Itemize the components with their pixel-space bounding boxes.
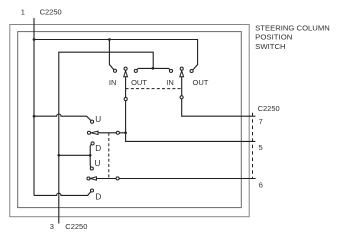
wire rail from pin 1 (left vertical)	[33, 18, 35, 195]
junction dot wireA/switch1 feed	[108, 38, 111, 41]
junction dot link wire/wire B	[152, 67, 155, 70]
svg-text:D: D	[95, 144, 101, 153]
inner box	[18, 32, 242, 208]
wire bracket feed D/U contacts	[59, 144, 92, 167]
wire rail from pin 3 (second left vertical) and wire B to switches junction	[59, 52, 153, 223]
mechanical link dashed between row2 and row5 wipers	[108, 133, 110, 179]
connector label 1 C2250 (top)	[21, 8, 62, 17]
svg-text:IN: IN	[109, 78, 117, 87]
component title STEERING COLUMN POSITION SWITCH	[255, 23, 330, 50]
wire switch 1 feed	[109, 40, 113, 70]
contact circle IN switch 2	[169, 69, 172, 72]
svg-text:SWITCH: SWITCH	[255, 42, 285, 51]
svg-text:U: U	[95, 115, 101, 124]
wire linking switch1 OUT to switch2 IN	[137, 68, 171, 70]
svg-text:IN: IN	[166, 78, 174, 87]
junction dot row2/switch1 shaft	[124, 131, 127, 134]
svg-text:POSITION: POSITION	[255, 33, 292, 42]
contact circle OUT switch 1	[134, 69, 137, 72]
wiper arrow switch 1	[124, 71, 128, 77]
svg-text:OUT: OUT	[131, 78, 147, 87]
contact circle D bracket	[91, 142, 94, 145]
svg-text:5: 5	[259, 143, 263, 152]
wire row 6 to contact D with hop over rail 2	[34, 192, 91, 196]
svg-text:C2250: C2250	[40, 8, 62, 17]
contact circle U row 1	[91, 120, 94, 123]
junction dot rail1/wireA	[33, 38, 36, 41]
contact circle U bracket	[90, 167, 93, 170]
junction circle on row 5 shaft	[116, 177, 119, 180]
svg-text:3: 3	[50, 222, 54, 231]
connector C2250 dashed line (right)	[252, 113, 254, 179]
wire row 2 wiper shaft	[98, 132, 126, 134]
contact circle IN switch 1	[113, 69, 116, 72]
svg-text:C2250: C2250	[65, 222, 87, 231]
svg-text:U: U	[95, 159, 101, 168]
mechanical link dashed between switch poles	[126, 88, 182, 90]
svg-text:6: 6	[259, 181, 263, 190]
wire row 1 to contact U with hop over rail 2	[34, 114, 91, 121]
pole circle switch 1	[124, 67, 127, 70]
wire switch 2 pole shaft down and right to pin 7	[182, 77, 256, 117]
contact circle row 2 wiper	[87, 131, 90, 134]
svg-text:1: 1	[21, 8, 25, 17]
wiper arrow row 5	[90, 177, 96, 180]
wire switch 1 pole shaft down and right to pin 5	[126, 77, 256, 142]
junction dot bracket feed/bracket	[89, 154, 92, 157]
wiper arrow switch 2	[180, 71, 184, 77]
pole circle switch 2	[180, 67, 183, 70]
junction circle on switch 1 shaft	[124, 98, 127, 101]
contact circle row 5 wiper	[87, 177, 90, 180]
outer box	[10, 25, 249, 217]
svg-text:7: 7	[259, 117, 263, 126]
svg-text:STEERING COLUMN: STEERING COLUMN	[255, 23, 330, 32]
wiper arrow row 2	[91, 131, 98, 134]
contact circle D row 6	[90, 189, 93, 192]
contact circle OUT switch 2	[190, 69, 193, 72]
junction dot rail1/row1	[33, 115, 36, 118]
wire A from rail 1 to switch 2 feed	[34, 40, 198, 70]
svg-text:C2250: C2250	[258, 104, 280, 113]
junction circle on switch 2 shaft	[180, 96, 183, 99]
svg-text:OUT: OUT	[193, 78, 209, 87]
junction circle on row 2 shaft	[116, 131, 119, 134]
connector label 3 C2250 (bottom)	[50, 222, 88, 231]
junction dot rail2/bracket feed	[57, 154, 60, 157]
wire row 5 wiper shaft to pin 6	[96, 178, 256, 180]
svg-text:D: D	[95, 192, 101, 201]
